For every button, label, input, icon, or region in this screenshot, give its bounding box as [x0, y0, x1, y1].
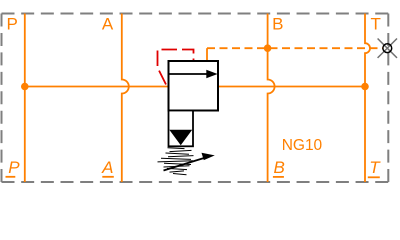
svg-text:A: A [102, 14, 114, 33]
junction dot P [21, 83, 29, 91]
junction dot T [361, 83, 369, 91]
underline B bottom [273, 176, 284, 178]
wire main horizontal line valve to T [218, 86, 365, 88]
wire orange dashed pilot line to gauge [207, 47, 383, 49]
flow arrow inside valve [169, 73, 208, 75]
wire P vertical line [24, 14, 26, 183]
svg-text:T: T [371, 14, 381, 33]
gauge port symbol (circle with X) [378, 39, 397, 58]
wire orange pilot stub at valve top [206, 48, 208, 61]
underline A bottom [102, 176, 114, 178]
svg-text:B: B [272, 14, 283, 33]
poppet cone (filled triangle) [169, 130, 192, 146]
svg-text:A: A [101, 158, 113, 177]
wire red dashed pilot line from main line to valve top [158, 50, 194, 85]
plate outline right edge (dashed border) [387, 14, 389, 183]
plate outline left edge (dashed border) [1, 14, 3, 183]
svg-text:NG10: NG10 [282, 137, 323, 154]
svg-text:P: P [8, 158, 20, 177]
svg-text:T: T [369, 158, 381, 177]
plate outline top edge (dashed border) [2, 13, 389, 15]
underline T bottom [368, 176, 380, 178]
wire main horizontal line P to valve [25, 86, 169, 88]
valve body V1 [169, 61, 219, 111]
wire A vertical line with hop over main line [122, 14, 129, 183]
underline P bottom [6, 176, 16, 178]
wire B vertical line with hop over main line [268, 14, 275, 183]
junction dot B on pilot line [264, 44, 272, 52]
poppet box below valve [169, 111, 194, 147]
spring (zigzag) [158, 148, 194, 175]
plate outline bottom edge (dashed border) [2, 181, 389, 183]
svg-text:B: B [274, 158, 285, 177]
wire T vertical line with hop over pilot line [365, 14, 370, 183]
adjustment arrow through spring [164, 158, 205, 171]
svg-text:P: P [7, 14, 18, 33]
